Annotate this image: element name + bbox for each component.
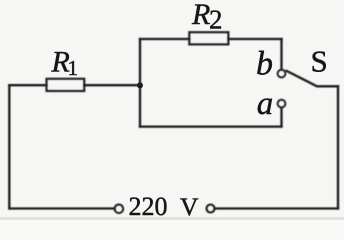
svg-text:b: b	[256, 46, 273, 83]
wire down to contact b	[280, 39, 282, 69]
wire bottom left	[9, 207, 114, 209]
terminal circle left of 220 V	[115, 205, 124, 214]
wire top branch right	[228, 38, 281, 40]
switch S blade	[287, 71, 338, 86]
resistor R2 body	[189, 32, 228, 44]
svg-text:S: S	[311, 44, 328, 79]
svg-text:2: 2	[209, 5, 223, 35]
svg-text:R: R	[191, 0, 210, 31]
contact a circle	[278, 100, 286, 108]
wire junction vertical	[139, 39, 141, 127]
svg-text:220: 220	[129, 192, 168, 220]
junction node dot	[137, 82, 143, 88]
wire top branch left	[140, 38, 189, 40]
wire lower branch	[140, 125, 282, 127]
wire R1 right to junction	[84, 84, 140, 86]
wire right vertical	[337, 86, 339, 208]
wire bottom right	[215, 207, 338, 209]
scan shade bottom edge	[0, 217, 344, 220]
contact b circle	[278, 70, 286, 78]
wire R1 left	[9, 84, 46, 86]
svg-text:V: V	[180, 192, 199, 220]
svg-text:a: a	[257, 86, 274, 122]
wire left vertical	[8, 85, 10, 208]
svg-text:1: 1	[68, 56, 79, 80]
resistor R1 body	[47, 79, 85, 91]
terminal circle right of 220 V	[207, 205, 215, 213]
wire below contact a	[280, 108, 282, 127]
